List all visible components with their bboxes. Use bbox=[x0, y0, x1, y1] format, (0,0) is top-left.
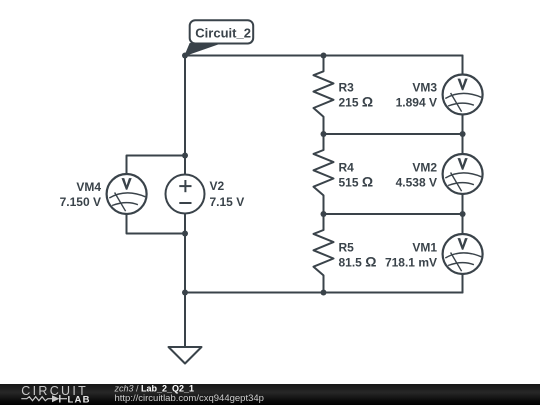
voltmeter VM3 bbox=[443, 75, 483, 115]
svg-text:215 Ω: 215 Ω bbox=[339, 94, 374, 110]
footer logo CIRCUIT LAB bbox=[21, 384, 90, 405]
node VM4 bottom junction bbox=[182, 231, 188, 237]
node top-left junction bbox=[182, 53, 188, 59]
svg-text:VM4: VM4 bbox=[76, 180, 101, 194]
svg-text:http://circuitlab.com/cxq944ge: http://circuitlab.com/cxq944gept34p bbox=[115, 393, 264, 404]
resistor R4 bbox=[314, 134, 334, 214]
wire top horizontal bbox=[185, 55, 463, 57]
svg-text:zch3 / Lab_2_Q2_1: zch3 / Lab_2_Q2_1 bbox=[114, 383, 195, 393]
svg-text:1.894 V: 1.894 V bbox=[396, 96, 437, 110]
ground bbox=[184, 293, 186, 348]
node bottom-left junction bbox=[182, 290, 188, 296]
wire right vertical bbox=[462, 56, 464, 293]
svg-text:R4: R4 bbox=[339, 161, 355, 175]
svg-text:7.150 V: 7.150 V bbox=[60, 195, 101, 209]
node VM4 top junction bbox=[182, 153, 188, 159]
svg-text:VM3: VM3 bbox=[412, 81, 437, 95]
voltage source V2 bbox=[166, 175, 205, 214]
wire bottom horizontal bbox=[185, 292, 463, 294]
voltmeter VM2 bbox=[443, 154, 483, 194]
svg-text:Circuit_2: Circuit_2 bbox=[195, 25, 251, 40]
svg-text:R3: R3 bbox=[339, 81, 355, 95]
node top R3 junction bbox=[321, 53, 327, 59]
svg-text:81.5 Ω: 81.5 Ω bbox=[339, 254, 377, 270]
node C left junction bbox=[321, 211, 327, 217]
wire left vertical bbox=[184, 56, 186, 293]
svg-text:7.15 V: 7.15 V bbox=[210, 195, 245, 209]
svg-text:VM1: VM1 bbox=[412, 241, 437, 255]
voltmeter VM4 bbox=[107, 174, 147, 214]
node B left junction bbox=[321, 131, 327, 137]
voltmeter VM1 bbox=[443, 234, 483, 274]
wire middle horizontal node B bbox=[324, 133, 463, 135]
resistor R3 bbox=[314, 56, 334, 135]
wire VM4 branch bbox=[127, 156, 186, 234]
node bottom R5 junction bbox=[321, 290, 327, 296]
svg-text:R5: R5 bbox=[339, 241, 355, 255]
svg-text:718.1 mV: 718.1 mV bbox=[385, 256, 437, 270]
svg-text:LAB: LAB bbox=[68, 394, 91, 405]
svg-text:4.538 V: 4.538 V bbox=[396, 176, 437, 190]
node B right junction bbox=[460, 131, 466, 137]
footer bar bbox=[0, 384, 540, 405]
svg-text:V2: V2 bbox=[210, 179, 225, 193]
svg-text:515 Ω: 515 Ω bbox=[339, 174, 374, 190]
node C right junction bbox=[460, 211, 466, 217]
svg-text:VM2: VM2 bbox=[412, 161, 437, 175]
footer text bbox=[114, 383, 264, 404]
node label Circuit_2 bbox=[185, 20, 253, 55]
wire middle horizontal node C bbox=[324, 213, 463, 215]
resistor R5 bbox=[314, 214, 334, 293]
